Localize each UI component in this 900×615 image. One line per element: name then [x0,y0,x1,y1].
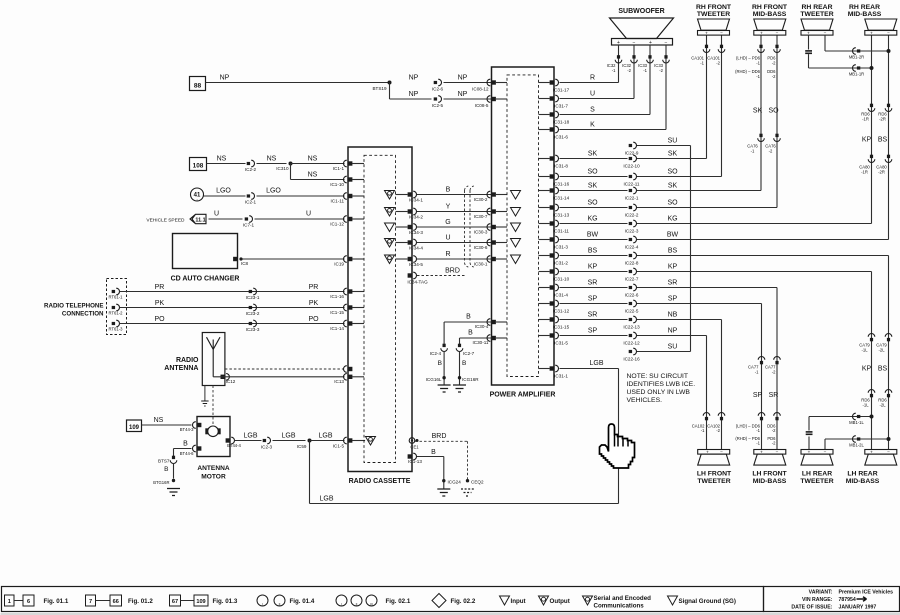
svg-text:-1L: -1L [861,348,868,353]
svg-text:R: R [445,251,450,258]
svg-text:NS: NS [308,156,318,163]
svg-text:IC19: IC19 [334,262,344,267]
svg-text:PK: PK [309,300,319,307]
svg-text:II: II [279,603,281,607]
svg-text:-2: -2 [769,149,773,154]
svg-text:+: + [808,450,811,455]
svg-text:IC1-11: IC1-11 [331,199,345,204]
svg-text:IC31-17: IC31-17 [553,88,570,93]
svg-text:SO: SO [667,169,678,176]
svg-text:KG: KG [667,216,677,223]
svg-text:88: 88 [194,83,202,90]
svg-text:USED ONLY IN LWB: USED ONLY IN LWB [627,389,691,396]
svg-text:ICG24: ICG24 [448,480,462,485]
svg-text:+: + [760,31,763,36]
svg-text:IC30-6: IC30-6 [474,245,488,250]
svg-text:IC22-13: IC22-13 [623,325,640,330]
svg-text:SK: SK [588,183,598,190]
svg-text:IC34-5: IC34-5 [409,262,423,267]
svg-text:VEHICLES.: VEHICLES. [627,397,663,404]
svg-text:SUBWOOFER: SUBWOOFER [618,8,664,15]
svg-text:PR: PR [309,284,319,291]
svg-text:SO: SO [667,200,678,207]
svg-text:BS: BS [668,248,678,255]
svg-text:RH FRONT: RH FRONT [696,4,732,11]
svg-text:DATE OF ISSUE:: DATE OF ISSUE: [791,604,832,610]
svg-text:NS: NS [154,417,164,424]
svg-text:NP: NP [458,91,468,98]
svg-text:SK: SK [668,151,678,158]
svg-text:IC31-10: IC31-10 [553,277,570,282]
svg-text:IC13: IC13 [334,379,344,384]
svg-text:PO: PO [308,316,319,323]
svg-text:B: B [183,441,188,448]
svg-text:66: 66 [113,599,119,605]
svg-text:RADIO CASSETTE: RADIO CASSETTE [349,478,411,485]
svg-text:B: B [468,330,473,337]
svg-text:LGB: LGB [589,360,603,367]
svg-text:NP: NP [409,75,419,82]
svg-text:IC2-4: IC2-4 [430,351,442,356]
svg-text:IC31-11: IC31-11 [553,229,569,234]
svg-text:BTG16R: BTG16R [153,480,169,485]
svg-text:IC34-TAG: IC34-TAG [407,280,428,285]
svg-text:BS: BS [878,137,888,144]
svg-text:BT44-3: BT44-3 [180,427,194,432]
svg-text:IC30-7: IC30-7 [474,214,488,219]
svg-text:IC1-15: IC1-15 [330,310,344,315]
svg-text:III: III [370,603,373,607]
svg-text:IC22-4: IC22-4 [625,245,639,250]
svg-text:IC22-3: IC22-3 [625,229,639,234]
svg-text:NS: NS [217,156,227,163]
svg-text:MB1-1L: MB1-1L [849,420,864,425]
svg-text:108: 108 [193,163,204,170]
svg-text:S: S [590,107,595,114]
svg-text:RT61-2: RT61-2 [109,311,124,316]
svg-text:SO: SO [768,108,779,115]
svg-text:MB1-2L: MB1-2L [849,443,864,448]
svg-text:ICG16R: ICG16R [462,377,479,382]
svg-text:RH FRONT: RH FRONT [752,4,788,11]
svg-text:IC31-13: IC31-13 [553,213,570,218]
svg-text:PO: PO [154,316,165,323]
svg-text:IC22-16: IC22-16 [623,357,640,362]
svg-text:MB1-2R: MB1-2R [849,55,864,60]
svg-text:II: II [356,603,358,607]
svg-text:I: I [262,603,263,607]
svg-text:−: − [824,450,827,455]
svg-text:LGB: LGB [281,433,295,440]
svg-text:ANTENNA: ANTENNA [197,465,229,472]
svg-text:NS: NS [267,156,277,163]
svg-text:IC2-1: IC2-1 [245,200,257,205]
svg-text:U: U [214,211,219,218]
svg-text:IC1-14: IC1-14 [330,326,344,331]
svg-text:SK: SK [668,183,678,190]
svg-text:B: B [446,186,451,193]
svg-text:Fig. 01.2: Fig. 01.2 [128,598,153,605]
svg-text:LH FRONT: LH FRONT [752,471,787,478]
svg-text:NP: NP [220,75,230,82]
svg-text:NOTE: SU CIRCUIT: NOTE: SU CIRCUIT [627,373,689,380]
svg-text:Fig. 02.1: Fig. 02.1 [386,598,411,605]
svg-text:IC1-10: IC1-10 [330,182,344,187]
svg-text:SR: SR [769,392,779,399]
svg-text:Serial and Encoded: Serial and Encoded [594,595,652,602]
svg-text:R: R [590,75,595,82]
svg-text:IC22-1: IC22-1 [625,196,639,201]
svg-text:ICG16L: ICG16L [426,377,442,382]
svg-text:NB: NB [668,312,678,319]
svg-text:IC31-7: IC31-7 [554,104,568,109]
svg-text:LH REAR: LH REAR [802,471,832,478]
svg-text:IC22-9: IC22-9 [625,151,639,156]
svg-text:MID-BASS: MID-BASS [753,11,787,18]
svg-text:LGB: LGB [319,496,333,503]
svg-text:IC30-1: IC30-1 [474,262,488,267]
svg-text:MID-BASS: MID-BASS [846,478,880,485]
svg-text:IC22-2: IC22-2 [625,213,639,218]
svg-text:NP: NP [668,328,678,335]
svg-text:Y: Y [446,203,451,210]
svg-text:IC8: IC8 [241,261,249,266]
svg-text:CONNECTION: CONNECTION [62,311,104,318]
svg-text:IC08-5: IC08-5 [475,103,489,108]
svg-text:RADIO: RADIO [176,357,199,364]
svg-text:B: B [438,360,442,367]
svg-text:BT44-6: BT44-6 [180,451,194,456]
svg-text:IC22-11: IC22-11 [623,182,639,187]
svg-text:CD AUTO CHANGER: CD AUTO CHANGER [171,276,240,283]
svg-text:-2L: -2L [878,348,885,353]
svg-text:B: B [164,466,168,473]
svg-text:TWEETER: TWEETER [800,478,833,485]
svg-text:Fig. 01.3: Fig. 01.3 [213,598,238,605]
svg-text:IC31-4: IC31-4 [554,293,568,298]
svg-text:-1L: -1L [862,403,869,408]
svg-text:67: 67 [172,599,178,605]
svg-text:RH REAR: RH REAR [802,4,833,11]
svg-text:LGO: LGO [216,188,231,195]
svg-text:SK: SK [753,108,763,115]
svg-text:6: 6 [27,599,30,605]
svg-text:KP: KP [588,264,598,271]
svg-text:VARIANT:: VARIANT: [809,589,833,595]
svg-text:787954: 787954 [839,597,856,603]
svg-text:IC1-1: IC1-1 [333,166,345,171]
svg-text:Signal Ground (SG): Signal Ground (SG) [679,598,736,605]
svg-text:MID-BASS: MID-BASS [753,478,787,485]
svg-text:KP: KP [668,264,678,271]
svg-text:BS: BS [588,248,598,255]
svg-text:IC23-2: IC23-2 [246,311,260,316]
svg-text:IC22-10: IC22-10 [623,164,640,169]
svg-text:BW: BW [667,232,679,239]
svg-text:IC30-11: IC30-11 [472,340,488,345]
svg-text:IC22-8: IC22-8 [625,261,639,266]
svg-text:SP: SP [588,296,598,303]
svg-text:−: − [776,31,779,36]
svg-text:IC30-2: IC30-2 [474,197,488,202]
svg-text:109: 109 [196,599,205,605]
svg-text:-2R: -2R [879,117,886,122]
svg-text:SU: SU [668,138,678,145]
svg-text:IC30-4: IC30-4 [475,324,489,329]
svg-text:IC31-16: IC31-16 [553,182,570,187]
svg-text:+: + [870,31,873,36]
svg-text:IC31-8: IC31-8 [554,164,568,169]
svg-text:IC23-1: IC23-1 [246,295,260,300]
svg-text:-1R: -1R [862,117,869,122]
svg-text:VIN RANGE:: VIN RANGE: [802,597,833,603]
svg-text:1: 1 [8,599,11,605]
svg-text:TWEETER: TWEETER [800,11,833,18]
svg-text:IC08-12: IC08-12 [472,87,489,92]
svg-text:U: U [590,91,595,98]
svg-text:CEQ2: CEQ2 [471,480,484,485]
svg-text:IC1-13: IC1-13 [408,459,422,464]
svg-text:IDENTIFIES LWB ICE.: IDENTIFIES LWB ICE. [627,381,696,388]
svg-text:JANUARY 1997: JANUARY 1997 [839,604,877,610]
svg-text:NP: NP [458,75,468,82]
svg-text:SU: SU [668,344,678,351]
svg-text:SR: SR [668,280,678,287]
svg-text:IC31-14: IC31-14 [553,196,570,201]
svg-text:IC1-12: IC1-12 [330,222,344,227]
svg-text:Communications: Communications [594,603,645,610]
svg-text:−: − [776,450,779,455]
svg-text:−: − [720,31,723,36]
svg-text:LGB: LGB [243,433,257,440]
svg-text:VEHICLE SPEED: VEHICLE SPEED [146,218,185,224]
svg-text:IC59: IC59 [297,444,307,449]
svg-text:+: + [705,31,708,36]
svg-text:IC2-2: IC2-2 [245,167,257,172]
svg-text:IC22-7: IC22-7 [625,277,639,282]
svg-text:SO: SO [587,200,598,207]
svg-text:SR: SR [588,312,598,319]
svg-text:B: B [462,360,466,367]
svg-text:IC31-1: IC31-1 [554,374,568,379]
svg-text:Output: Output [550,598,570,605]
svg-text:LGB: LGB [318,433,332,440]
svg-text:BTS7: BTS7 [158,459,170,464]
svg-text:Input: Input [511,598,526,605]
svg-text:SP: SP [668,296,678,303]
svg-text:SO: SO [587,169,598,176]
svg-text:IC31-6: IC31-6 [554,135,568,140]
svg-text:+: + [706,450,709,455]
svg-text:ANTENNA: ANTENNA [164,365,198,372]
svg-text:-1R: -1R [861,170,868,175]
svg-text:IC34-1: IC34-1 [409,198,423,203]
svg-text:KP: KP [862,366,872,373]
svg-text:IC31-12: IC31-12 [553,309,570,314]
svg-text:I: I [341,603,342,607]
svg-text:IC310: IC310 [276,166,289,171]
svg-text:Premium ICE Vehicles: Premium ICE Vehicles [839,589,894,595]
svg-text:IC12: IC12 [226,379,236,384]
svg-text:SP: SP [588,328,598,335]
svg-text:K: K [590,122,595,129]
svg-text:Fig. 01.1: Fig. 01.1 [44,598,69,605]
svg-text:SR: SR [588,280,598,287]
svg-text:TWEETER: TWEETER [697,478,730,485]
svg-text:-1: -1 [751,149,755,154]
svg-text:IC2-7: IC2-7 [463,351,475,356]
svg-text:LH FRONT: LH FRONT [697,471,732,478]
svg-text:IC7-1: IC7-1 [243,223,255,228]
svg-text:+: + [760,450,763,455]
svg-text:IC30-3: IC30-3 [474,230,488,235]
svg-text:KG: KG [587,216,597,223]
svg-text:IC34-2: IC34-2 [409,215,423,220]
svg-text:11.1: 11.1 [195,218,205,224]
svg-text:MID-BASS: MID-BASS [848,11,882,18]
svg-text:B: B [431,449,436,456]
svg-text:BRD: BRD [432,433,447,440]
svg-text:IC22-12: IC22-12 [623,341,640,346]
svg-text:MOTOR: MOTOR [201,473,226,480]
svg-text:RT61-3: RT61-3 [109,327,124,332]
svg-text:+: + [870,450,873,455]
svg-text:CE1: CE1 [410,445,419,450]
svg-text:IC34-3: IC34-3 [409,230,423,235]
svg-text:TWEETER: TWEETER [697,11,730,18]
svg-text:BRD: BRD [445,268,460,275]
svg-text:+: + [807,31,810,36]
svg-text:Fig. 02.2: Fig. 02.2 [451,598,476,605]
svg-text:POWER AMPLIFIER: POWER AMPLIFIER [490,391,556,398]
svg-text:IC22-5: IC22-5 [625,309,639,314]
svg-text:MB1-1R: MB1-1R [849,72,864,77]
svg-text:NP: NP [409,91,419,98]
svg-text:RH REAR: RH REAR [849,4,880,11]
svg-text:RADIO TELEPHONE: RADIO TELEPHONE [44,303,103,310]
svg-text:IC22-6: IC22-6 [625,293,639,298]
svg-text:IC2-3: IC2-3 [261,445,273,450]
svg-text:KP: KP [862,137,872,144]
svg-text:PR: PR [155,284,165,291]
svg-text:Fig. 01.4: Fig. 01.4 [290,598,315,605]
svg-text:−: − [887,31,890,36]
svg-text:IC23-3: IC23-3 [246,327,260,332]
svg-text:U: U [306,211,311,218]
svg-text:IC31-2: IC31-2 [554,261,568,266]
svg-text:B: B [466,314,471,321]
svg-text:−: − [824,31,827,36]
svg-text:BW: BW [587,232,599,239]
svg-text:IC31-18: IC31-18 [553,120,570,125]
svg-text:RT61-1: RT61-1 [109,295,124,300]
svg-text:-2L: -2L [879,403,886,408]
svg-text:IC31-15: IC31-15 [553,325,570,330]
svg-text:U: U [445,234,450,241]
svg-text:SP: SP [753,392,763,399]
svg-text:7: 7 [89,599,92,605]
svg-text:109: 109 [129,425,140,431]
svg-text:LH REAR: LH REAR [847,471,877,478]
svg-text:−: − [887,450,890,455]
svg-text:IC34-4: IC34-4 [409,246,423,251]
svg-text:LGO: LGO [266,188,281,195]
svg-text:NS: NS [308,172,318,179]
svg-text:BT44-4: BT44-4 [227,443,241,448]
svg-text:IC2-6: IC2-6 [432,87,444,92]
svg-text:IC1-5: IC1-5 [333,444,345,449]
svg-text:G: G [445,219,450,226]
svg-text:−: − [720,450,723,455]
svg-text:IC1-16: IC1-16 [330,294,344,299]
svg-text:SK: SK [588,151,598,158]
svg-text:-2R: -2R [878,170,885,175]
svg-text:BTS19: BTS19 [372,86,386,91]
svg-text:BS: BS [878,366,888,373]
svg-text:IC2-5: IC2-5 [432,103,444,108]
svg-text:IC31-5: IC31-5 [554,341,568,346]
svg-text:IC31-3: IC31-3 [554,245,568,250]
svg-text:PK: PK [155,300,165,307]
